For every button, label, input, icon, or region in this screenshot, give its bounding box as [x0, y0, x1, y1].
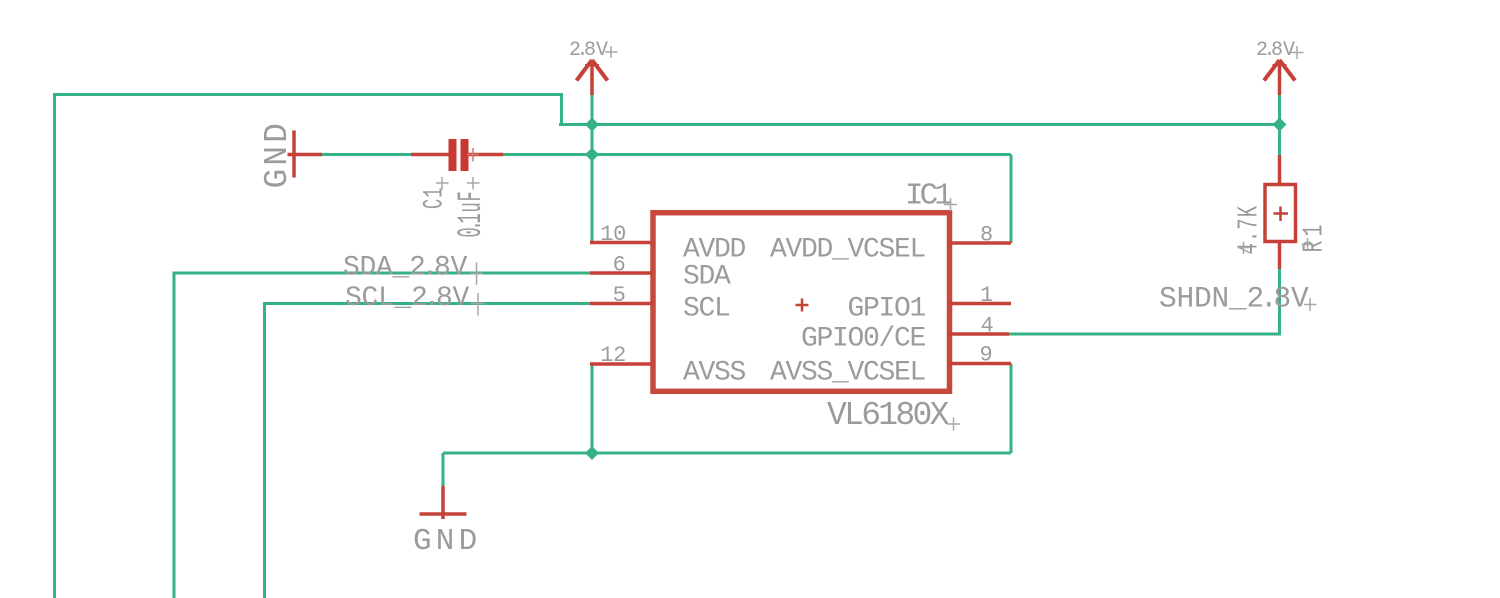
wire 2.8V horizontal rail [559, 123, 1280, 126]
svg-text:6: 6 [613, 253, 626, 278]
capacitor C1 [411, 139, 503, 171]
supply symbol 2.8V right arrow [1264, 60, 1295, 95]
pin 9 stub [948, 362, 1011, 366]
svg-text:GPIO1: GPIO1 [847, 294, 925, 325]
wire vertical x=592 supply to pin 10 [591, 95, 594, 243]
svg-text:2.8V: 2.8V [1256, 39, 1295, 62]
supply symbol 2.8V left arrow [577, 60, 608, 95]
wire drop to bottom GND [442, 453, 445, 486]
svg-text:1: 1 [980, 283, 993, 308]
wire SCL_2.8V [265, 304, 591, 598]
wire pin9 down [1010, 364, 1013, 454]
wire C1 right to pin8 drop [498, 153, 1011, 156]
svg-text:VL6180X: VL6180X [827, 397, 950, 434]
ground symbol GND bottom [420, 486, 467, 519]
pin 8 stub [948, 241, 1011, 245]
svg-text:AVSS: AVSS [683, 358, 746, 389]
pin 10 stub [590, 241, 652, 245]
svg-text:4: 4 [981, 314, 994, 339]
svg-text:5: 5 [613, 283, 626, 308]
svg-text:10: 10 [600, 222, 626, 247]
wire drop to pin 8 [1010, 155, 1013, 244]
svg-text:2.8V: 2.8V [569, 39, 608, 62]
svg-text:GND: GND [413, 524, 481, 559]
pin 4 stub [948, 332, 1009, 336]
svg-text:SCL: SCL [683, 294, 730, 325]
svg-text:SHDN_2.8V: SHDN_2.8V [1159, 282, 1309, 316]
resistor R1 [1265, 155, 1296, 269]
wire GND to C1 left [322, 153, 418, 156]
svg-text:8: 8 [980, 223, 993, 248]
junction at 1279.5,124.5 [1273, 118, 1287, 132]
svg-text:AVSS_VCSEL: AVSS_VCSEL [770, 358, 926, 389]
pin 12 stub [590, 362, 652, 366]
svg-text:SDA_2.8V: SDA_2.8V [343, 253, 468, 284]
wire SDA_2.8V [174, 273, 590, 598]
svg-text:C1: C1 [419, 187, 450, 209]
wire bottom GND rail [443, 452, 1011, 455]
junction at 592,124.5 [585, 118, 599, 132]
wire SHDN net pin4 to R1 [1009, 269, 1280, 334]
svg-text:9: 9 [980, 343, 993, 368]
svg-text:R1: R1 [1298, 221, 1331, 253]
junction at 592,154.5 [585, 148, 599, 162]
pin 6 stub [590, 271, 652, 275]
svg-text:AVDD_VCSEL: AVDD_VCSEL [770, 235, 926, 266]
svg-text:0.1uF: 0.1uF [453, 191, 491, 238]
svg-text:12: 12 [600, 343, 626, 368]
svg-text:GPIO0/CE: GPIO0/CE [801, 324, 926, 355]
pin 5 stub [590, 302, 652, 306]
wire pin12 down [591, 364, 594, 454]
svg-text:SCL_2.8V: SCL_2.8V [345, 283, 470, 314]
wire net 2.8V top-left run [55, 95, 562, 598]
pin 1 stub [948, 302, 1011, 306]
svg-text:SDA: SDA [683, 262, 731, 293]
IC U1 box VL6180X [653, 213, 950, 392]
svg-text:GND: GND [259, 120, 296, 188]
wire right supply drop [1278, 95, 1281, 155]
IC origin + [796, 299, 809, 312]
ground symbol GND left [288, 131, 323, 178]
junction at 592,453 [585, 446, 599, 460]
svg-text:IC1: IC1 [905, 179, 952, 214]
